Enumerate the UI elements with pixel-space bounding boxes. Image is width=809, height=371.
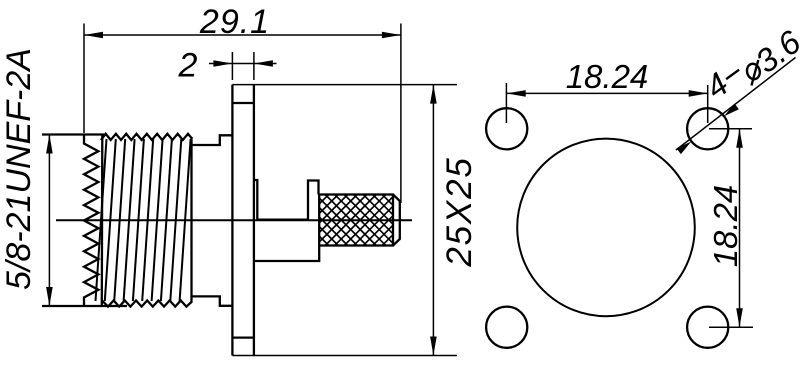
svg-text:5/8-21UNEF-2A: 5/8-21UNEF-2A xyxy=(0,48,38,290)
mounting hole bottom-right xyxy=(687,307,728,348)
dimension 29.1 right arrowhead xyxy=(382,32,401,39)
rear body bottom outline xyxy=(254,246,319,262)
dimension 18.24 vertical top arrowhead xyxy=(736,129,743,148)
shank between thread and flange xyxy=(192,135,233,305)
thread top sawtooth xyxy=(101,134,192,140)
thread top edge xyxy=(42,133,104,135)
thread flank hatch lines xyxy=(96,139,191,301)
dimension 5/8-21UNEF-2A xyxy=(48,135,50,307)
dimension 18.24 horizontal right arrowhead xyxy=(689,90,708,97)
dimension 25X25 top arrowhead xyxy=(430,85,437,104)
mounting hole bottom-left xyxy=(486,307,527,348)
hole callout upper arrowhead xyxy=(724,104,739,117)
knurled solder pot body xyxy=(319,195,400,246)
thread dimension bottom arrowhead xyxy=(46,287,53,306)
dimension 18.24 horizontal xyxy=(506,83,707,123)
dimension 29.1 left arrowhead xyxy=(84,32,103,39)
svg-text:18.24: 18.24 xyxy=(566,58,649,95)
thread runout boundary line xyxy=(101,135,104,306)
dimension 2 xyxy=(209,52,277,80)
dimension 2 left arrowhead xyxy=(213,60,232,67)
thread end edge xyxy=(190,137,192,303)
dimension 18.24 vertical bottom arrowhead xyxy=(736,308,743,327)
svg-text:18.24: 18.24 xyxy=(707,185,744,268)
centerline axis of connector xyxy=(56,219,412,221)
knurl cross-hatch xyxy=(319,195,393,246)
svg-text:2: 2 xyxy=(178,47,198,85)
dimension 18.24 vertical xyxy=(709,129,753,327)
connector barrel front view xyxy=(517,139,695,317)
thread bottom sawtooth xyxy=(102,301,192,307)
thread section outline xyxy=(42,134,192,307)
flange plate (side view) xyxy=(232,85,254,356)
hole callout diameter symbol xyxy=(745,60,761,86)
svg-text:29.1: 29.1 xyxy=(199,3,270,41)
rear body with slot (top outline) xyxy=(254,180,319,220)
dimension 25X25 xyxy=(232,85,457,356)
hole callout 4-phi3.6 leader xyxy=(676,58,796,151)
mounting hole top-right xyxy=(687,108,728,149)
dimension 29.1 xyxy=(84,24,401,204)
thread dimension top arrowhead xyxy=(46,135,53,154)
dimension 2 right arrowhead xyxy=(254,60,273,67)
mounting hole top-left xyxy=(486,108,527,149)
hole callout lower arrowhead xyxy=(677,141,692,154)
thread start zigzag chamfer xyxy=(84,135,98,306)
svg-text:25X25: 25X25 xyxy=(440,156,479,267)
thread bottom extension edge xyxy=(42,305,127,307)
dimension 25X25 bottom arrowhead xyxy=(430,337,437,356)
dimension 18.24 horizontal left arrowhead xyxy=(507,90,526,97)
